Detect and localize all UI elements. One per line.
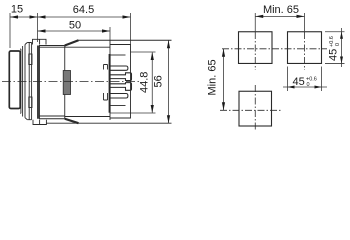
svg-text:50: 50 [69, 20, 81, 32]
svg-text:15: 15 [11, 4, 23, 16]
svg-text:56: 56 [153, 75, 165, 87]
svg-text:45: 45 [293, 76, 305, 88]
svg-text:0: 0 [307, 82, 310, 88]
svg-text:Min. 65: Min. 65 [263, 4, 299, 16]
svg-text:44.8: 44.8 [139, 72, 151, 93]
svg-text:Min. 65: Min. 65 [207, 59, 219, 95]
svg-text:0: 0 [335, 43, 341, 46]
svg-text:64.5: 64.5 [73, 4, 94, 16]
svg-text:45: 45 [328, 49, 340, 61]
